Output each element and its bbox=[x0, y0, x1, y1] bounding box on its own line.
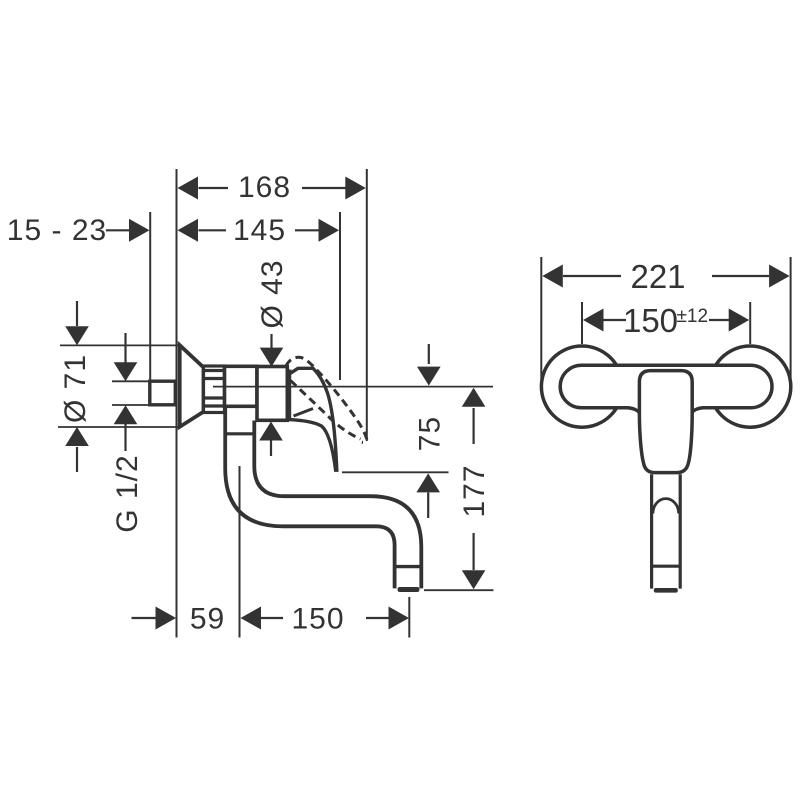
handle base joint bbox=[288, 370, 291, 420]
dimension 59 bbox=[132, 603, 226, 636]
svg-text:168: 168 bbox=[238, 171, 291, 204]
dimension 177 bbox=[424, 388, 494, 590]
aerator line left view bbox=[395, 565, 422, 568]
svg-text:177: 177 bbox=[458, 464, 491, 517]
dimension 150 bottom bbox=[241, 603, 410, 636]
svg-text:150: 150 bbox=[623, 302, 678, 339]
G1/2 dimension bbox=[111, 333, 149, 533]
extension line outlet axis bbox=[408, 597, 410, 638]
spout swivel joint line bbox=[225, 432, 254, 435]
handle detail tick bbox=[294, 409, 314, 417]
G1/2 supply stub bbox=[150, 381, 176, 405]
svg-text:59: 59 bbox=[190, 603, 225, 636]
diameter 71 dimension bbox=[58, 301, 178, 472]
extension line 221 right bbox=[790, 257, 792, 390]
extension line 145 bbox=[339, 212, 341, 380]
svg-text:75: 75 bbox=[413, 416, 446, 451]
svg-text:221: 221 bbox=[630, 258, 685, 295]
front view spout bbox=[652, 474, 681, 592]
dimension 145 bbox=[178, 214, 340, 247]
extension line 168 bbox=[366, 169, 368, 441]
extension line spout axis bbox=[239, 466, 241, 638]
svg-text:150: 150 bbox=[291, 603, 344, 636]
extension line 150pm right bbox=[749, 302, 751, 344]
svg-text:Ø 71: Ø 71 bbox=[59, 354, 92, 423]
extension line 150pm left bbox=[581, 302, 583, 344]
front view escutcheon right bbox=[710, 346, 791, 427]
valve body bbox=[257, 367, 287, 421]
dimension 221 bbox=[542, 258, 789, 295]
spout elbow bbox=[225, 408, 421, 589]
front view lever handle bbox=[639, 371, 692, 473]
diameter 43 lower arrow bbox=[259, 422, 283, 457]
aerator outlet dark band left view bbox=[398, 587, 420, 592]
svg-text:±12: ±12 bbox=[677, 306, 709, 327]
extension line 221 left bbox=[540, 257, 542, 390]
svg-text:Ø 43: Ø 43 bbox=[256, 259, 289, 328]
dimension 75 bbox=[342, 344, 449, 518]
svg-text:15 - 23: 15 - 23 bbox=[7, 214, 107, 247]
dimension 168 bbox=[178, 171, 366, 204]
front view body bar bbox=[560, 365, 772, 414]
lever handle closed position bbox=[290, 368, 337, 470]
wall line left view bbox=[176, 169, 178, 638]
svg-text:145: 145 bbox=[233, 214, 286, 247]
cartridge housing bbox=[225, 366, 258, 406]
diameter 43 dimension bbox=[256, 259, 289, 366]
centerline bbox=[213, 386, 493, 388]
connection nut bbox=[204, 366, 225, 413]
lever handle open position dashed bbox=[286, 357, 367, 442]
front view escutcheon left bbox=[541, 346, 622, 427]
dimension 150 plus minus 12 bbox=[583, 302, 749, 339]
wall surface min line bbox=[149, 212, 151, 381]
escutcheon bell bbox=[180, 345, 204, 427]
dimension 15 - 23 bbox=[7, 214, 150, 247]
svg-text:G 1/2: G 1/2 bbox=[111, 454, 144, 532]
